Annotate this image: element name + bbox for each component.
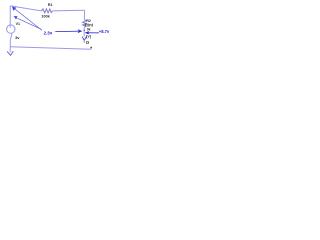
annotation 2.3v arrow (55, 30, 80, 33)
resistor R2 (83, 20, 87, 28)
voltage source V1 (7, 25, 15, 33)
wire top-left vertical (9, 6, 11, 25)
background (0, 0, 120, 66)
svg-text:2.3v: 2.3v (44, 31, 53, 36)
wire top horizontal left segment (10, 6, 41, 11)
resistor R1 (42, 9, 53, 13)
annotation arrow to left wire (17, 18, 41, 29)
wire bottom horizontal (10, 47, 91, 50)
wire R2 to junction (83, 27, 85, 30)
wire ground stub (9, 47, 11, 53)
svg-text:V1: V1 (16, 22, 20, 26)
annotation +8.7v arrow (86, 32, 99, 34)
current arrow chevron on R2 branch (82, 37, 86, 41)
svg-text:0k: 0k (87, 27, 91, 31)
wire chevron to end (83, 40, 85, 43)
svg-text:[v]: [v] (86, 34, 91, 38)
annotation arrow to top-left node (15, 9, 42, 31)
wire right vertical upper (83, 10, 85, 19)
node junction dot (84, 30, 85, 31)
svg-text:100k: 100k (41, 14, 50, 19)
wire top horizontal right segment (53, 9, 85, 12)
wire junction down (83, 31, 85, 37)
svg-text:R1: R1 (48, 3, 53, 7)
wire below V1 (10, 34, 12, 47)
node bottom-right dot (90, 47, 92, 49)
V1 plus stub (9, 25, 11, 28)
svg-text:D: D (86, 40, 89, 45)
svg-text:+8.7v: +8.7v (99, 29, 110, 34)
ground symbol (7, 51, 13, 55)
wire bottom-right hook (90, 47, 92, 49)
